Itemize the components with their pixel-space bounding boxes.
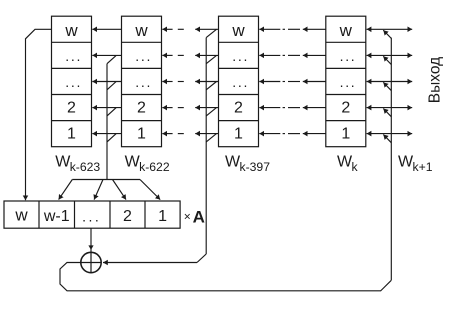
svg-text:w: w (339, 21, 353, 40)
svg-text:A: A (193, 207, 205, 226)
svg-text:...: ... (232, 48, 249, 64)
svg-text:...: ... (135, 48, 152, 64)
svg-text:1: 1 (67, 126, 76, 143)
svg-text:2: 2 (234, 100, 243, 117)
svg-text:1: 1 (137, 126, 146, 143)
svg-text:2: 2 (137, 100, 146, 117)
svg-text:...: ... (340, 74, 357, 90)
svg-text:...: ... (340, 48, 357, 64)
svg-text:1: 1 (341, 126, 350, 143)
svg-text:w: w (64, 21, 78, 40)
svg-text:w-1: w-1 (43, 208, 70, 225)
svg-text:...: ... (82, 208, 101, 224)
svg-text:2: 2 (341, 100, 350, 117)
svg-text:...: ... (65, 74, 82, 90)
svg-text:...: ... (135, 74, 152, 90)
svg-text:Выход: Выход (427, 57, 444, 103)
svg-text:2: 2 (123, 208, 132, 225)
svg-text:×: × (184, 209, 191, 223)
svg-text:...: ... (65, 48, 82, 64)
svg-text:...: ... (232, 74, 249, 90)
svg-text:2: 2 (67, 100, 76, 117)
svg-text:1: 1 (234, 126, 243, 143)
svg-text:w: w (231, 21, 245, 40)
svg-text:1: 1 (158, 208, 167, 225)
svg-text:w: w (134, 21, 148, 40)
svg-text:w: w (14, 206, 28, 225)
